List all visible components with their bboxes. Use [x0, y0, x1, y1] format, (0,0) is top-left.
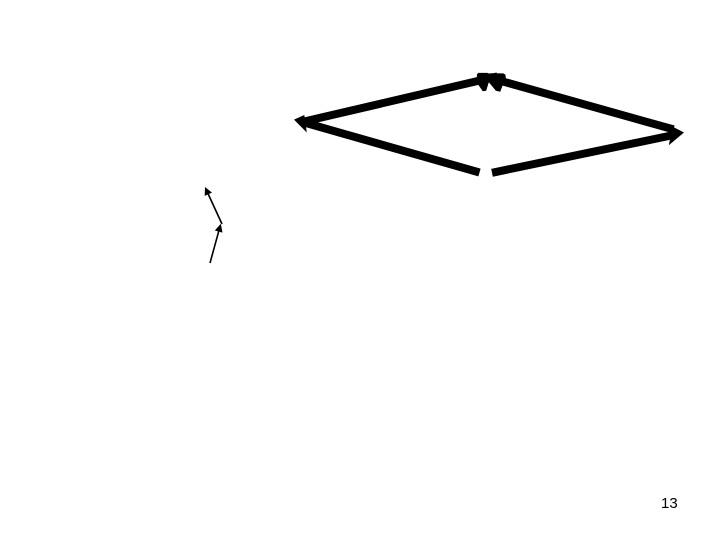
node: left vertex arrowhead (points left): [294, 115, 307, 133]
page number 13: [661, 495, 678, 512]
wire: thick line, lower-left diamond edge (bottom vertex toward left vertex): [306, 123, 480, 173]
wire: thick line, lower-right diamond edge (bottom vertex toward right vertex): [492, 135, 676, 173]
node: right vertex arrowhead (points right): [669, 127, 684, 146]
node: top vertex, two converging arrowheads (bowtie cap): [477, 73, 506, 92]
wire: thick line, upper-right diamond edge (right vertex toward top vertex): [485, 77, 674, 130]
small thin arrow, lower (points up-right): [210, 224, 223, 263]
small thin arrow, upper (points up-left): [205, 187, 222, 224]
wire: thick line, upper-left diamond edge (left vertex toward top vertex): [302, 76, 498, 122]
